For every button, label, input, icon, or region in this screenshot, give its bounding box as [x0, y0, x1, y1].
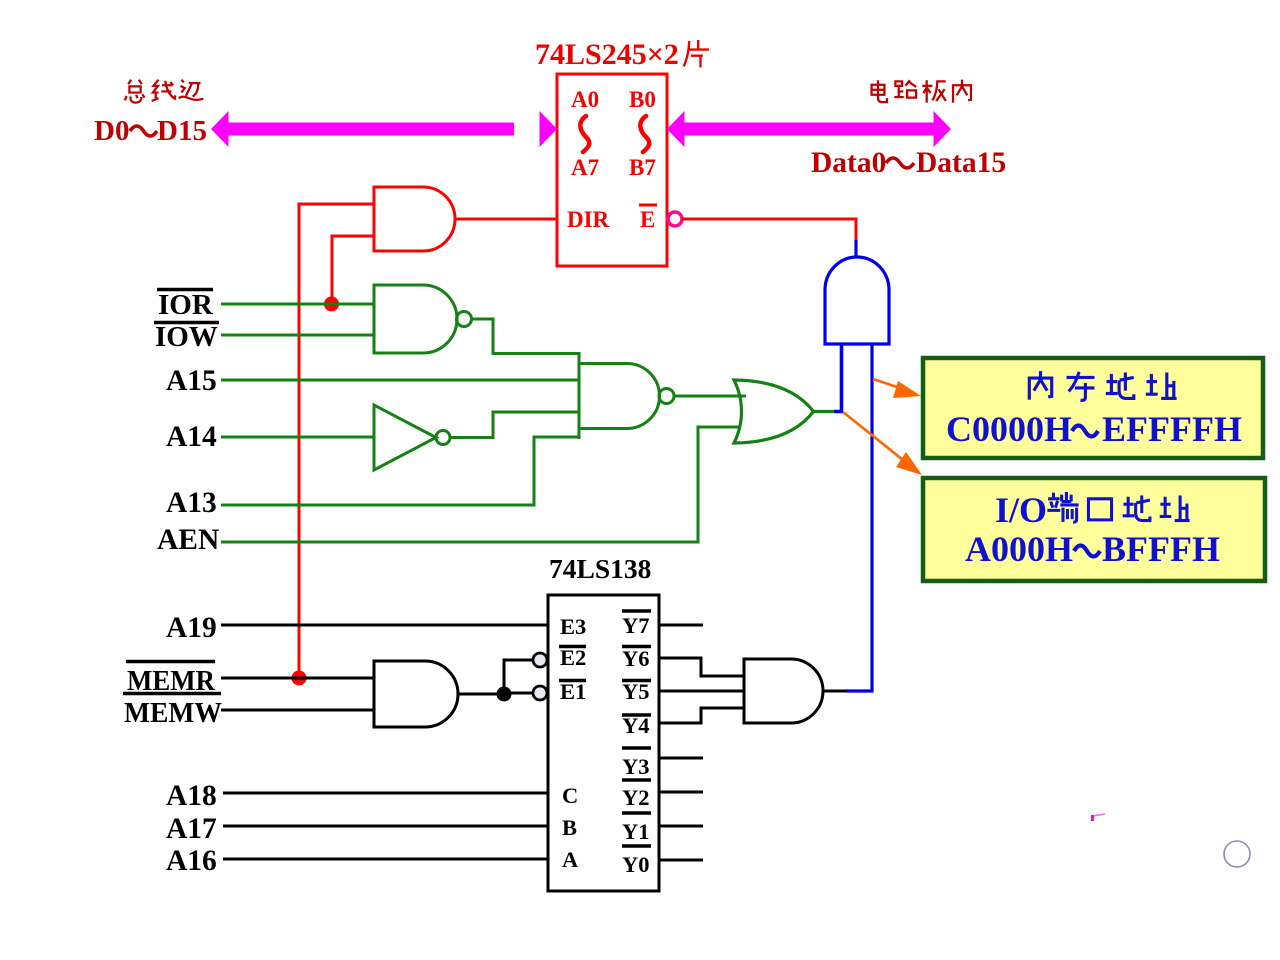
bus arrow left (magenta) [211, 111, 557, 147]
svg-text:Y2: Y2 [622, 785, 650, 810]
svg-text:B: B [562, 815, 577, 840]
wire Y3 stub [659, 757, 703, 760]
label 74LS245x2pian (title) [535, 38, 709, 71]
squiggle B bus [640, 116, 649, 152]
svg-text:A16: A16 [166, 845, 217, 877]
svg-text:E: E [640, 207, 655, 232]
chip U2 74LS138 [548, 595, 659, 891]
pin bubble E2 [533, 653, 547, 667]
wire Y6 to G8 [659, 658, 744, 676]
svg-text:D15: D15 [157, 115, 207, 147]
svg-text:Data0: Data0 [811, 147, 886, 179]
wire G5 output [813, 410, 834, 413]
and-gate G8 (black, Y6Y5Y4) [744, 659, 823, 723]
arrow to io box (orange) [843, 412, 908, 464]
callout box io address [923, 478, 1265, 581]
wire junction to E1 bubble [504, 692, 533, 695]
svg-text:Y5: Y5 [622, 679, 650, 704]
callout box memory address [923, 358, 1263, 458]
svg-text:E3: E3 [560, 614, 586, 639]
pin bubble E1 [533, 686, 547, 700]
svg-text:A: A [562, 847, 579, 872]
wire A14 [221, 436, 374, 439]
svg-text:AEN: AEN [157, 524, 219, 556]
svg-text:IOW: IOW [155, 321, 218, 353]
wire junction to E2 bubble [504, 660, 533, 694]
label A000H~BFFFH [965, 529, 1220, 569]
junction dot on IOR line [324, 297, 339, 312]
wire Y0 stub [659, 859, 703, 862]
svg-text:Y1: Y1 [622, 819, 650, 844]
wire G1 input1 to MEMR junction [299, 204, 374, 678]
svg-text:Y7: Y7 [622, 613, 650, 638]
svg-text:A15: A15 [166, 365, 217, 397]
nand-gate G3 (green 4-input) [578, 352, 581, 439]
svg-text:A13: A13 [166, 487, 217, 519]
wire G6 output up [854, 240, 857, 258]
label D0~D15 [94, 115, 207, 147]
svg-text:A18: A18 [166, 780, 217, 812]
label Data0~Data15 [811, 147, 1006, 179]
svg-text:B0: B0 [629, 87, 656, 112]
or-gate G5 (green) [734, 380, 814, 443]
svg-text:74LS138: 74LS138 [549, 553, 651, 584]
and-gate G7 (black, MEMR/MEMW) [374, 661, 458, 727]
chip U1 74LS245 [557, 74, 667, 266]
svg-text:MEMW: MEMW [124, 697, 222, 729]
wire E-bar to blue gate output [682, 219, 856, 240]
wire A18 to C [223, 792, 548, 795]
svg-text:Data15: Data15 [916, 147, 1006, 179]
wire A13 to G3 [221, 437, 579, 505]
bus arrow right (magenta) [667, 111, 951, 147]
label neicundizhi (memory address) [1029, 371, 1176, 400]
svg-text:DIR: DIR [567, 207, 610, 232]
wire Y2 stub [659, 791, 703, 794]
svg-text:Y3: Y3 [622, 754, 650, 779]
wire G1 input2 to IOR junction [332, 236, 374, 304]
wire G3 out to G5 [674, 395, 746, 398]
wire G2 out to G3 [472, 319, 580, 354]
wire Y4 to G8 [659, 708, 744, 723]
inverter G4 (green, A14) [374, 405, 436, 470]
label dianlubannei (on circuit board) [872, 80, 971, 103]
wire Y5 to G8 [659, 690, 744, 693]
svg-text:I/O: I/O [995, 490, 1047, 530]
svg-text:EFFFFH: EFFFFH [1102, 409, 1242, 449]
wire IOW [221, 334, 374, 337]
wire MEMR [221, 677, 374, 680]
junction dot G7 out [497, 687, 512, 702]
and-gate G1 (red, drives DIR) [374, 187, 455, 251]
squiggle A bus [580, 116, 589, 152]
decorative: small gray circle bottom right [1224, 841, 1250, 867]
nand-gate G2 (green IOR/IOW) [374, 285, 457, 353]
svg-text:D0: D0 [94, 115, 129, 147]
bubble G2 [457, 312, 472, 327]
wire G4 out to G3 [450, 412, 579, 438]
label I/O duankoudizhi (io port address) [995, 490, 1047, 530]
wire IOR [221, 303, 374, 306]
svg-text:BFFFH: BFFFH [1102, 529, 1220, 569]
svg-text:A0: A0 [571, 87, 599, 112]
svg-text:IOR: IOR [158, 289, 214, 321]
label C0000H~EFFFFH [946, 409, 1242, 449]
label zongxianbian (bus side) [125, 80, 203, 103]
pin bubble E [668, 212, 682, 226]
svg-text:C: C [562, 783, 578, 808]
svg-text:C0000H: C0000H [946, 409, 1072, 449]
arrow to memory box (orange) [873, 379, 906, 390]
svg-text:B7: B7 [629, 155, 656, 180]
wire G7 out to junction [458, 693, 504, 696]
wire G6 input1 from G5 [834, 344, 842, 412]
svg-text:E1: E1 [560, 679, 586, 704]
svg-text:A14: A14 [166, 421, 217, 453]
wire G1 output to DIR [455, 218, 557, 221]
svg-text:A17: A17 [166, 813, 217, 845]
svg-text:Y6: Y6 [622, 646, 650, 671]
wire AEN to G5 [221, 427, 740, 542]
bubble G3 [659, 389, 674, 404]
junction dot on MEMR line [292, 671, 307, 686]
bubble G4 [436, 431, 450, 445]
decorative: magenta speck [1093, 814, 1105, 816]
wire Y7 stub [659, 624, 703, 627]
svg-text:A7: A7 [571, 155, 599, 180]
svg-text:Y0: Y0 [622, 852, 650, 877]
wire Y1 stub [659, 825, 703, 828]
svg-text:A19: A19 [166, 612, 217, 644]
svg-text:74LS245×2: 74LS245×2 [535, 38, 679, 71]
wire A15 [221, 379, 579, 382]
wire G8 output [823, 690, 847, 693]
and-gate G6 (blue, output up to E-bar) [825, 257, 889, 344]
svg-text:A000H: A000H [965, 529, 1073, 569]
svg-text:E2: E2 [560, 645, 586, 670]
wire G6 input2 from G8 [846, 344, 872, 691]
pin labels Y7..Y0 [622, 613, 650, 877]
wire A17 to B [223, 825, 548, 828]
wire MEMW [221, 709, 374, 712]
wire A16 to A [223, 858, 548, 861]
wire A19 to E3 [221, 624, 548, 627]
